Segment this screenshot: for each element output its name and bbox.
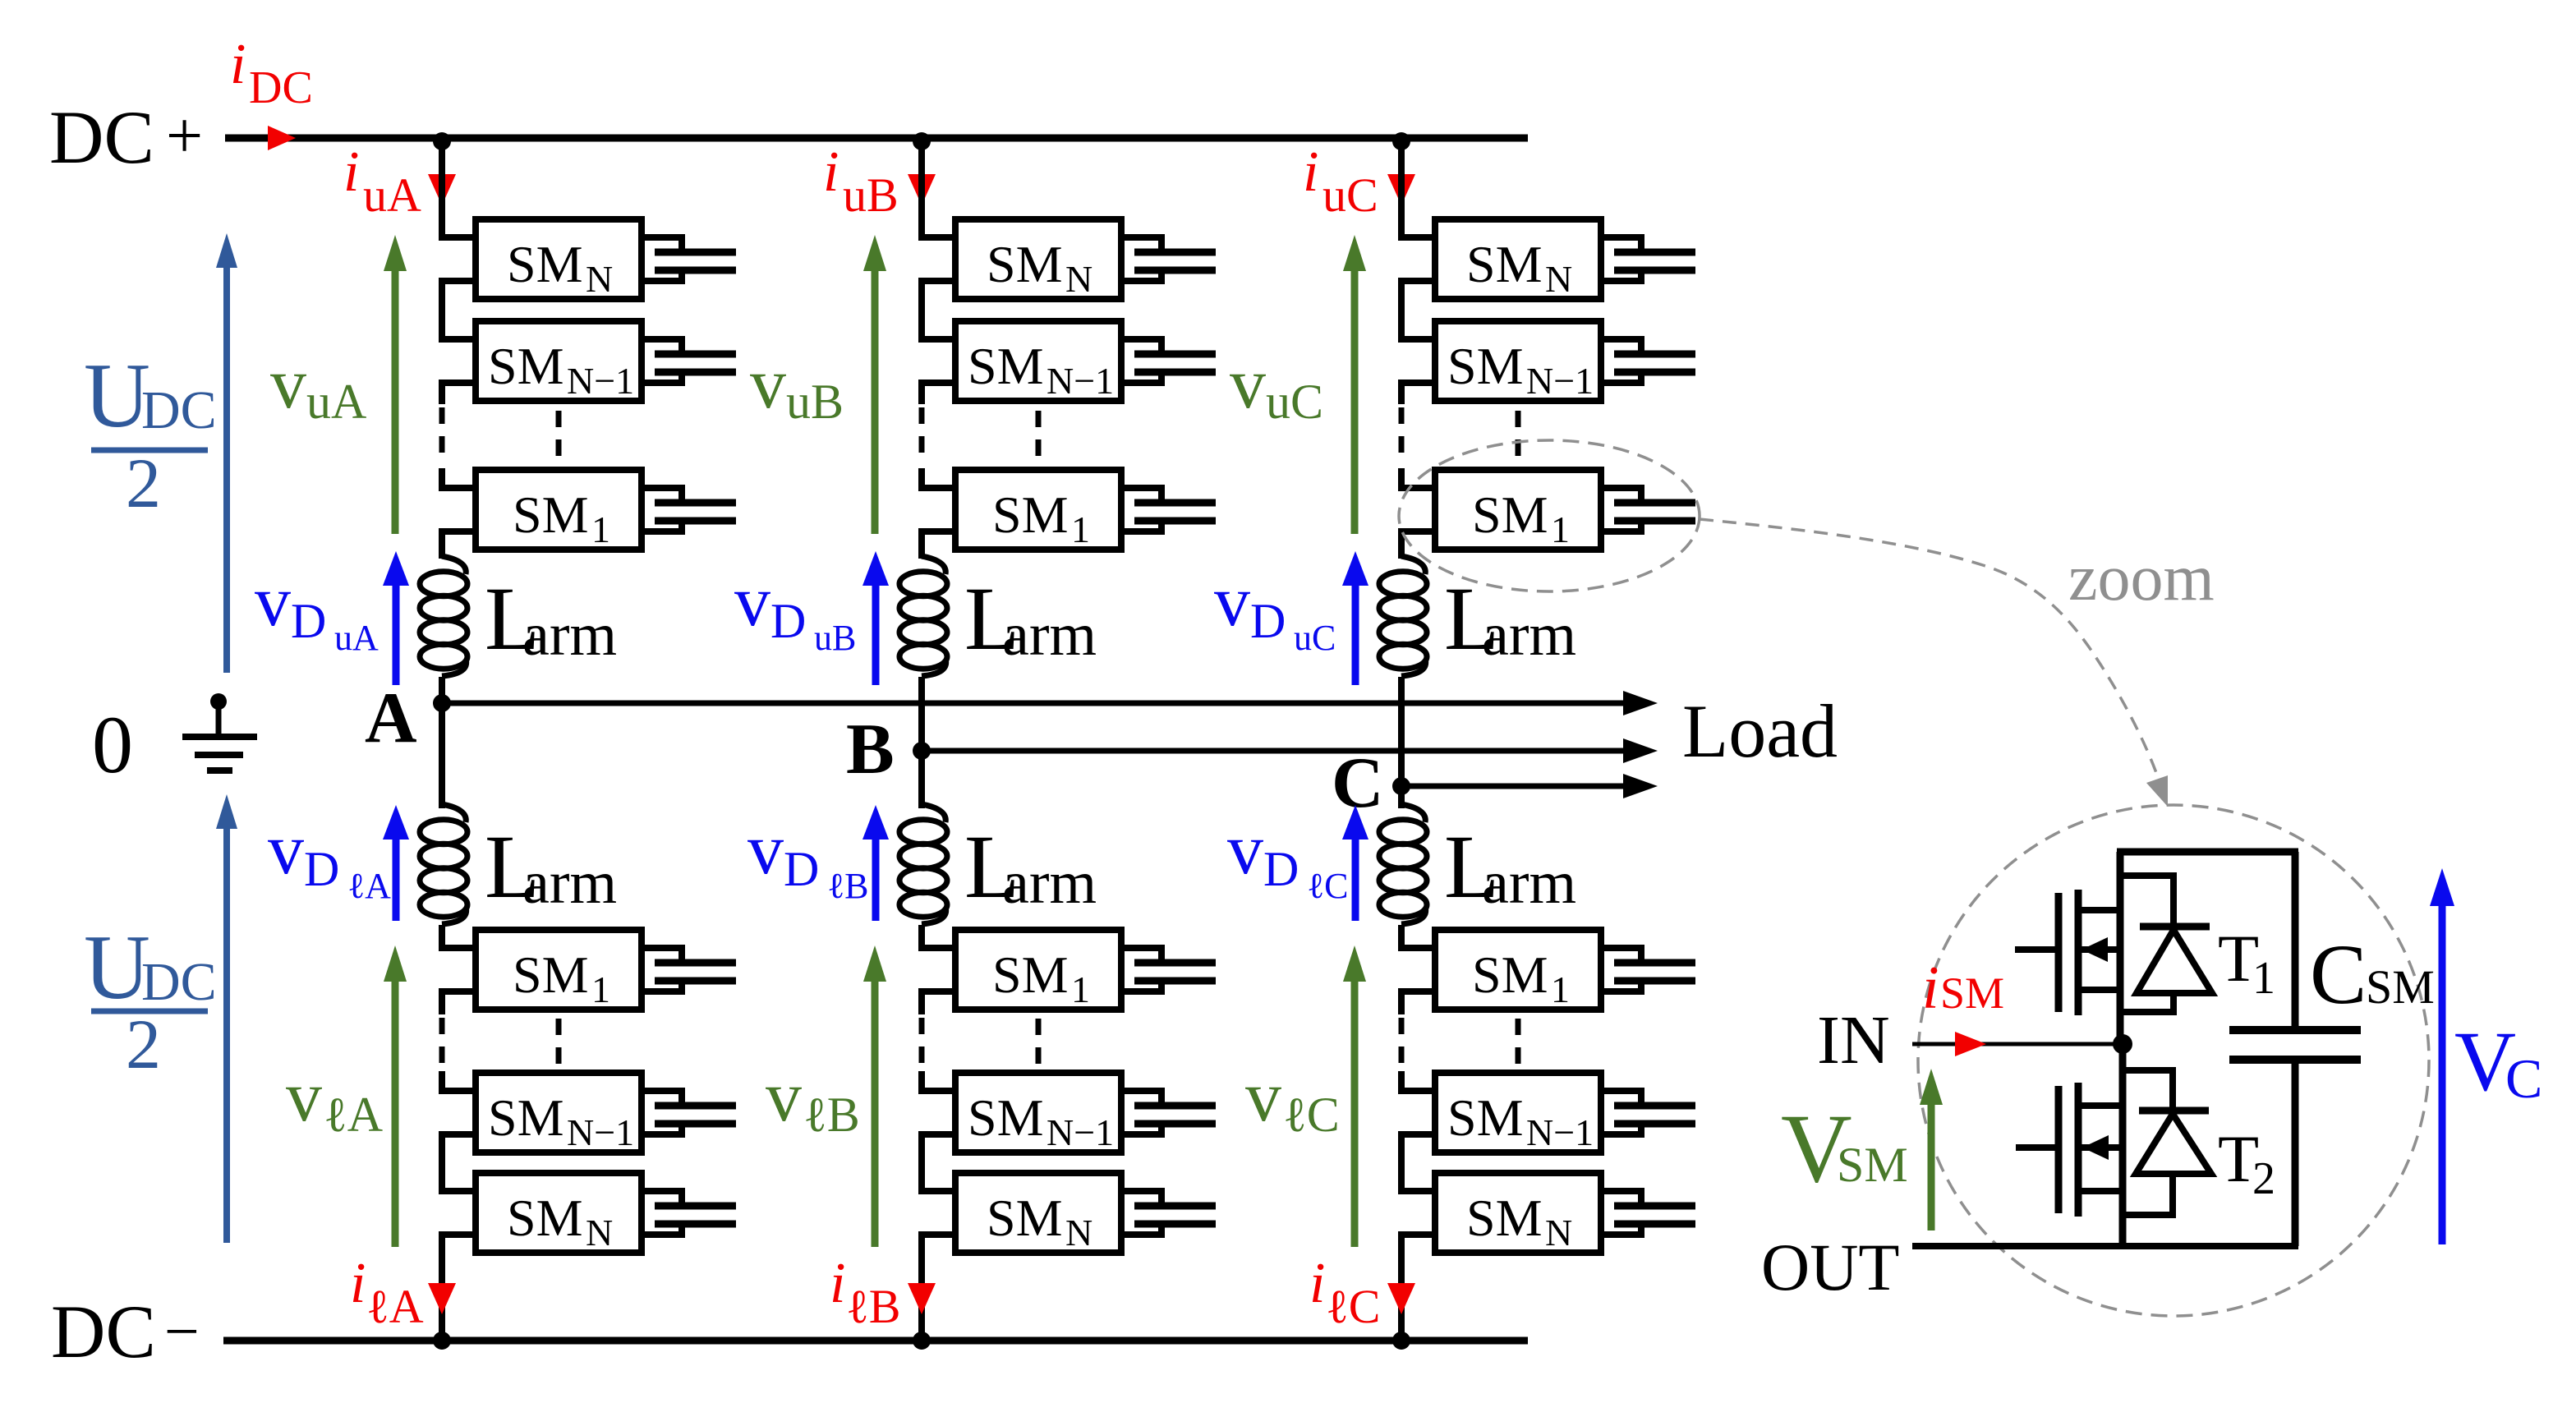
wire: D1 bottom jog: [2120, 1009, 2177, 1015]
svg-text:N: N: [1065, 1212, 1092, 1253]
svg-text:SM: SM: [1447, 1088, 1524, 1147]
svg-text:ℓC: ℓC: [1326, 1280, 1380, 1333]
svg-text:D: D: [784, 842, 819, 896]
junction dot phase B on DC+ bus: [913, 132, 931, 150]
ground node dot: [210, 693, 227, 710]
arrow v_uA: [384, 235, 407, 534]
svg-text:−: −: [164, 1297, 200, 1366]
svg-text:D: D: [1250, 594, 1286, 648]
svg-text:i: i: [1309, 1252, 1325, 1315]
zoom highlight ellipse around SM_1 upper arm C: [1399, 440, 1700, 591]
label L_arm upper A: [485, 568, 617, 669]
svg-text:D: D: [1263, 842, 1299, 896]
svg-text:1: 1: [1551, 968, 1570, 1010]
wire: upper arm chain phase C: [1401, 138, 1435, 559]
junction dot phase C on DC− bus: [1392, 1332, 1410, 1350]
svg-text:N−1: N−1: [1526, 360, 1594, 402]
submodule SM_1 upper arm phase A: [476, 470, 642, 550]
submodule SM_N lower arm phase C: [1435, 1173, 1601, 1253]
svg-text:0: 0: [92, 699, 133, 790]
svg-text:v: v: [255, 562, 291, 642]
label i_ℓA: [350, 1252, 424, 1333]
arrow U_DC/2 lower: [216, 794, 237, 1243]
svg-text:SM: SM: [513, 945, 589, 1004]
svg-text:ℓB: ℓB: [803, 1088, 860, 1142]
wire: DC− bus: [223, 1337, 1528, 1345]
svg-text:i: i: [343, 140, 359, 204]
label v_uC: [1230, 344, 1323, 429]
dashed wire lower arm phase A: [442, 1018, 559, 1068]
submodule SM_N-1 upper arm phase B: [955, 321, 1121, 402]
svg-text:v: v: [747, 810, 784, 890]
arrow V_SM: [1920, 1069, 1943, 1230]
inductor L_arm lower arm phase C: [1379, 804, 1427, 924]
submodule SM_1 lower arm phase C: [1435, 930, 1601, 1010]
svg-text:SM: SM: [1472, 945, 1548, 1004]
svg-text:N−1: N−1: [1526, 1111, 1594, 1153]
svg-text:DC: DC: [141, 952, 217, 1012]
svg-text:1: 1: [1071, 508, 1090, 550]
node dot: SM midpoint: [2113, 1034, 2132, 1054]
ground symbol: [182, 701, 257, 770]
wire: output line phase C to Load: [1401, 774, 1658, 798]
svg-text:SM: SM: [2366, 960, 2435, 1014]
svg-text:N: N: [1545, 1212, 1572, 1253]
submodule SM_N-1 lower arm phase B: [955, 1073, 1121, 1153]
capacitor of SM_1 upper arm phase C: [1601, 488, 1695, 531]
svg-text:B: B: [846, 710, 895, 789]
submodule SM_N lower arm phase A: [476, 1173, 642, 1253]
svg-text:SM: SM: [992, 945, 1069, 1004]
svg-text:2: 2: [2252, 1153, 2275, 1204]
label i_ℓB: [830, 1252, 900, 1333]
label L_arm upper C: [1444, 568, 1576, 669]
arrow i_uA: [428, 174, 456, 205]
node C dot: [1392, 777, 1410, 795]
wire: DC+ bus: [225, 135, 1528, 142]
svg-text:SM: SM: [488, 1088, 564, 1147]
label v_D_uC: [1214, 562, 1336, 658]
svg-text:v: v: [286, 1057, 322, 1137]
label v_uA: [270, 344, 366, 429]
label L_arm upper B: [964, 568, 1097, 669]
svg-text:SM: SM: [992, 485, 1069, 544]
svg-text:N−1: N−1: [567, 360, 634, 402]
wire: T2 conductor: [2119, 1044, 2127, 1246]
svg-text:v: v: [750, 344, 786, 424]
arrow i_ℓB: [908, 1283, 936, 1314]
svg-text:SM: SM: [507, 235, 583, 293]
svg-text:N: N: [1065, 258, 1092, 300]
zoom leader dashed curve: [1700, 519, 2160, 782]
svg-text:SM: SM: [968, 1088, 1044, 1147]
label v_D_uA: [255, 562, 379, 658]
wire: upper arm chain phase A: [442, 138, 476, 559]
svg-text:N: N: [586, 1212, 613, 1253]
svg-text:N−1: N−1: [1046, 1111, 1114, 1153]
label i_DC: [230, 33, 313, 113]
wire: node C to lower coil: [1398, 786, 1405, 808]
label V_SM: [1781, 1093, 1908, 1203]
submodule SM_1 upper arm phase C: [1435, 470, 1601, 550]
svg-text:uA: uA: [306, 375, 366, 429]
arrow v_D_uC: [1342, 551, 1368, 685]
svg-text:v: v: [734, 562, 770, 642]
transistor T2: [2016, 1083, 2123, 1217]
dashed wire upper arm phase A: [442, 407, 559, 465]
label L_arm lower A: [485, 816, 617, 917]
junction dot phase C on DC+ bus: [1392, 132, 1410, 150]
svg-text:i: i: [350, 1252, 366, 1315]
wire: SM detail top rail: [2117, 849, 2298, 856]
submodule SM_1 upper arm phase B: [955, 470, 1121, 550]
svg-text:OUT: OUT: [1761, 1230, 1900, 1304]
junction dot phase A on DC− bus: [433, 1332, 451, 1350]
arrow v_D_ℓA: [383, 805, 409, 921]
svg-text:arm: arm: [1482, 849, 1576, 917]
arrow U_DC/2 upper: [216, 233, 237, 673]
arrow v_D_ℓC: [1342, 805, 1368, 921]
arrow i_uB: [908, 174, 936, 205]
svg-text:U: U: [84, 345, 150, 447]
svg-text:IN: IN: [1817, 1002, 1890, 1079]
svg-text:C: C: [2505, 1047, 2542, 1110]
svg-text:SM: SM: [507, 1189, 583, 1247]
dashed wire lower arm phase C: [1401, 1018, 1518, 1068]
submodule SM_1 lower arm phase A: [476, 930, 642, 1010]
arrow V_C: [2430, 868, 2454, 1244]
svg-text:1: 1: [591, 968, 610, 1010]
wire: node B to lower coil: [918, 751, 925, 808]
svg-text:DC: DC: [49, 95, 154, 179]
label i_uA: [343, 140, 421, 222]
wire: D2 bottom jog: [2123, 1212, 2176, 1218]
svg-text:uB: uB: [786, 375, 844, 429]
label V_C: [2454, 1014, 2542, 1110]
wire: upper arm chain phase B: [922, 138, 955, 559]
svg-text:v: v: [270, 344, 306, 424]
svg-text:Load: Load: [1682, 689, 1838, 773]
svg-text:1: 1: [2252, 953, 2275, 1004]
capacitor of SM_N-1 upper arm phase A: [642, 339, 736, 383]
label i_uC: [1303, 140, 1378, 222]
label i_ℓC: [1309, 1252, 1380, 1333]
capacitor of SM_N lower arm phase C: [1601, 1191, 1695, 1235]
svg-text:N−1: N−1: [567, 1111, 634, 1153]
arrow v_D_uB: [862, 551, 889, 685]
wire: lower arm chain phase C: [1401, 925, 1435, 1341]
submodule SM_N-1 upper arm phase A: [476, 321, 642, 402]
svg-text:i: i: [1303, 140, 1318, 204]
svg-text:arm: arm: [1002, 601, 1097, 669]
svg-text:i: i: [830, 1252, 845, 1315]
svg-text:uB: uB: [814, 618, 856, 658]
capacitor of SM_N upper arm phase B: [1121, 237, 1216, 281]
label U_DC/2 upper: [84, 345, 217, 522]
capacitor of SM_N-1 upper arm phase C: [1601, 339, 1695, 383]
zoom detail dashed circle: [1918, 805, 2429, 1316]
submodule SM_1 lower arm phase B: [955, 930, 1121, 1010]
label i_SM: [1922, 954, 2004, 1022]
svg-text:2: 2: [126, 1005, 161, 1083]
label v_ℓC: [1245, 1057, 1340, 1142]
label U_DC/2 lower: [84, 917, 217, 1083]
label C_SM: [2310, 927, 2435, 1022]
svg-text:ℓA: ℓA: [366, 1280, 424, 1333]
capacitor of SM_N-1 lower arm phase A: [642, 1091, 736, 1134]
wire: IN lead: [1912, 1042, 2123, 1046]
transistor T1: [2015, 890, 2120, 1015]
dashed wire upper arm phase B: [922, 407, 1038, 465]
svg-text:D: D: [291, 594, 326, 648]
svg-text:v: v: [1214, 562, 1250, 642]
dashed wire upper arm phase C: [1401, 407, 1518, 465]
label L_arm lower C: [1444, 816, 1576, 917]
wire: output line phase A to Load: [442, 691, 1658, 715]
wire: lower arm chain phase B: [922, 925, 955, 1341]
arrow i_SM on IN lead: [1955, 1032, 1986, 1056]
svg-text:DC: DC: [51, 1290, 156, 1373]
capacitor of SM_1 upper arm phase A: [642, 488, 736, 531]
arrow i_uC: [1387, 174, 1415, 205]
node B dot: [913, 742, 931, 760]
wire: D1 top jog: [2120, 872, 2177, 879]
inductor L_arm lower arm phase A: [420, 804, 467, 924]
svg-text:U: U: [84, 917, 150, 1019]
svg-text:arm: arm: [1002, 849, 1097, 917]
svg-text:D: D: [304, 842, 339, 896]
svg-text:i: i: [230, 33, 246, 96]
svg-text:ℓC: ℓC: [1283, 1088, 1340, 1142]
svg-text:arm: arm: [522, 601, 617, 669]
junction dot phase A on DC+ bus: [433, 132, 451, 150]
capacitor of SM_N-1 lower arm phase B: [1121, 1091, 1216, 1134]
svg-text:uA: uA: [334, 618, 379, 658]
inductor L_arm upper arm phase C: [1379, 556, 1427, 676]
capacitor C_SM: [2229, 852, 2361, 1246]
arrow i_ℓC: [1387, 1283, 1415, 1314]
zoom leader arrowhead: [2146, 775, 2168, 807]
label v_ℓA: [286, 1057, 383, 1142]
svg-text:ℓA: ℓA: [324, 1088, 383, 1142]
arrow v_D_uA: [383, 551, 409, 685]
svg-text:DC: DC: [249, 62, 313, 113]
wire: output line phase B to Load: [922, 738, 1658, 763]
label v_D_ℓB: [747, 810, 868, 906]
svg-text:i: i: [823, 140, 839, 204]
capacitor of SM_1 upper arm phase B: [1121, 488, 1216, 531]
svg-text:v: v: [1245, 1057, 1281, 1137]
svg-text:arm: arm: [522, 849, 617, 917]
svg-text:ℓB: ℓB: [827, 866, 868, 906]
svg-text:ℓB: ℓB: [846, 1280, 900, 1333]
svg-text:zoom: zoom: [2068, 542, 2215, 614]
submodule SM_N upper arm phase C: [1435, 219, 1601, 300]
capacitor of SM_N upper arm phase C: [1601, 237, 1695, 281]
wire: upper coil to node C: [1398, 677, 1405, 786]
submodule SM_N upper arm phase B: [955, 219, 1121, 300]
label i_uB: [823, 140, 899, 222]
arrow v_D_ℓB: [862, 805, 889, 921]
capacitor of SM_N lower arm phase B: [1121, 1191, 1216, 1235]
arrow i_DC on DC+ bus: [268, 126, 296, 150]
svg-text:v: v: [1230, 344, 1266, 424]
svg-text:ℓA: ℓA: [347, 866, 391, 906]
svg-text:N: N: [1545, 258, 1572, 300]
wire: upper coil to node A: [439, 677, 445, 703]
label T1: [2218, 921, 2275, 1004]
svg-text:SM: SM: [1837, 1138, 1908, 1192]
submodule SM_N-1 lower arm phase C: [1435, 1073, 1601, 1153]
node A dot: [433, 694, 451, 712]
capacitor of SM_N-1 lower arm phase C: [1601, 1091, 1695, 1134]
svg-text:+: +: [166, 100, 203, 172]
label v_D_ℓC: [1227, 810, 1348, 906]
inductor L_arm lower arm phase B: [899, 804, 947, 924]
label v_D_uB: [734, 562, 856, 658]
capacitor of SM_1 lower arm phase A: [642, 948, 736, 991]
label v_ℓB: [766, 1057, 860, 1142]
arrow v_uB: [863, 235, 886, 534]
svg-text:A: A: [365, 678, 417, 758]
wire: node A to lower coil: [439, 703, 445, 808]
label T2: [2218, 1121, 2275, 1204]
wire: T1 collector conductor: [2117, 852, 2124, 1044]
svg-text:SM: SM: [968, 337, 1044, 395]
svg-text:SM: SM: [1940, 968, 2004, 1018]
svg-text:D: D: [770, 594, 806, 648]
svg-text:SM: SM: [987, 235, 1063, 293]
svg-text:N−1: N−1: [1046, 360, 1114, 402]
svg-text:SM: SM: [1447, 337, 1524, 395]
wire: lower arm chain phase A: [442, 925, 476, 1341]
svg-text:1: 1: [591, 508, 610, 550]
wire: D2 top jog: [2123, 1067, 2176, 1074]
capacitor of SM_N upper arm phase A: [642, 237, 736, 281]
svg-text:SM: SM: [1466, 235, 1543, 293]
svg-text:SM: SM: [1466, 1189, 1543, 1247]
arrow v_uC: [1343, 235, 1366, 534]
svg-text:SM: SM: [1472, 485, 1548, 544]
submodule SM_N upper arm phase A: [476, 219, 642, 300]
svg-text:arm: arm: [1482, 601, 1576, 669]
dashed wire lower arm phase B: [922, 1018, 1038, 1068]
label v_uB: [750, 344, 844, 429]
svg-text:DC: DC: [141, 380, 217, 440]
svg-text:SM: SM: [488, 337, 564, 395]
svg-text:N: N: [586, 258, 613, 300]
capacitor of SM_1 lower arm phase C: [1601, 948, 1695, 991]
arrow v_ℓC: [1343, 945, 1366, 1247]
capacitor of SM_1 lower arm phase B: [1121, 948, 1216, 991]
svg-text:v: v: [766, 1057, 802, 1137]
arrow i_ℓA: [428, 1283, 456, 1314]
diode D1 (antiparallel with T1): [2137, 876, 2212, 1012]
label v_D_ℓA: [268, 810, 391, 906]
svg-text:C: C: [2310, 927, 2367, 1022]
svg-text:1: 1: [1071, 968, 1090, 1010]
arrow v_ℓA: [384, 945, 407, 1247]
wire: upper coil to node B: [918, 677, 925, 751]
inductor L_arm upper arm phase B: [899, 556, 947, 676]
submodule SM_N-1 upper arm phase C: [1435, 321, 1601, 402]
svg-text:SM: SM: [987, 1189, 1063, 1247]
svg-text:uC: uC: [1322, 168, 1378, 222]
submodule SM_N-1 lower arm phase A: [476, 1073, 642, 1153]
inductor L_arm upper arm phase A: [420, 556, 467, 676]
svg-text:uC: uC: [1294, 618, 1336, 658]
submodule SM_N lower arm phase B: [955, 1173, 1121, 1253]
svg-text:v: v: [268, 810, 304, 890]
diode D2 (antiparallel with T2): [2136, 1070, 2211, 1215]
arrow v_ℓB: [863, 945, 886, 1247]
capacitor of SM_N-1 upper arm phase B: [1121, 339, 1216, 383]
wire: OUT lead: [1912, 1243, 2298, 1249]
svg-text:ℓC: ℓC: [1307, 866, 1348, 906]
label L_arm lower B: [964, 816, 1097, 917]
svg-text:uB: uB: [843, 168, 899, 222]
junction dot phase B on DC− bus: [913, 1332, 931, 1350]
svg-text:v: v: [1227, 810, 1263, 890]
capacitor of SM_N lower arm phase A: [642, 1191, 736, 1235]
svg-text:uC: uC: [1266, 375, 1323, 429]
svg-text:uA: uA: [363, 168, 421, 222]
svg-text:i: i: [1922, 954, 1939, 1022]
svg-text:2: 2: [126, 444, 161, 522]
svg-text:1: 1: [1551, 508, 1570, 550]
svg-text:SM: SM: [513, 485, 589, 544]
